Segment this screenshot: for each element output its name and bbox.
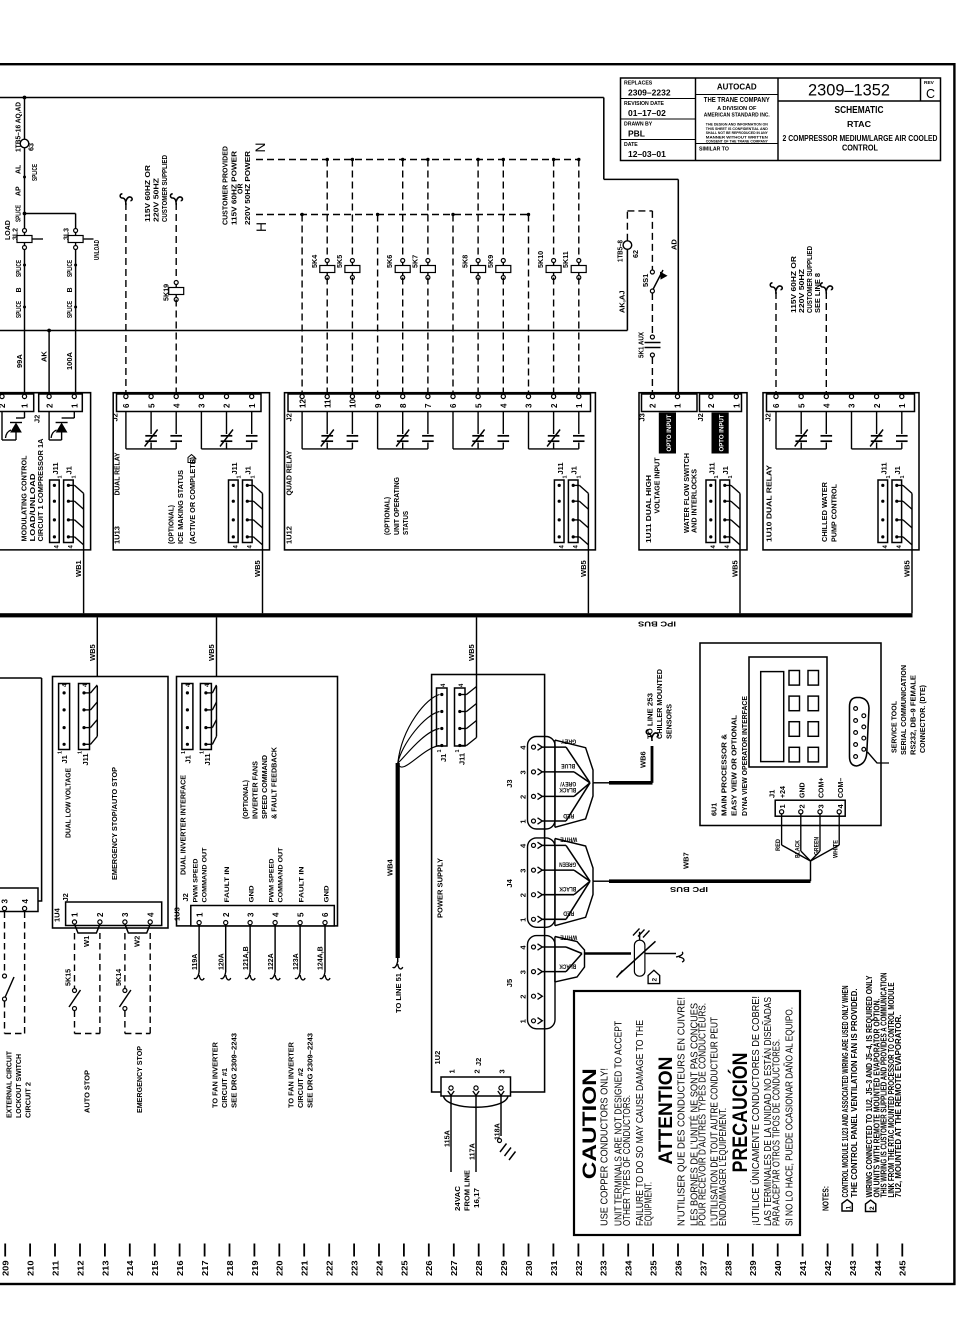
wire WB5 to 1U2 bbox=[476, 617, 478, 674]
svg-text:12: 12 bbox=[298, 399, 307, 408]
svg-text:220V 50HZ: 220V 50HZ bbox=[154, 177, 161, 222]
svg-text:STATUS: STATUS bbox=[403, 511, 410, 535]
wire customer feed dashed bbox=[120, 194, 126, 205]
svg-text:2: 2 bbox=[550, 403, 559, 408]
connector J1 of 1U2 bbox=[437, 688, 448, 746]
svg-text:118A: 118A bbox=[493, 1123, 502, 1140]
svg-text:W1: W1 bbox=[82, 936, 91, 947]
svg-text:LOAD: LOAD bbox=[5, 220, 12, 240]
svg-text:FROM LINE: FROM LINE bbox=[465, 1170, 472, 1211]
svg-text:1: 1 bbox=[195, 912, 204, 917]
svg-text:1: 1 bbox=[562, 475, 568, 478]
svg-text:WB5: WB5 bbox=[903, 560, 912, 577]
svg-text:228: 228 bbox=[474, 1260, 484, 1276]
svg-text:1: 1 bbox=[674, 403, 683, 408]
thyristor load circuit 2 bbox=[73, 412, 75, 419]
solenoid coil 3L3 bbox=[74, 229, 78, 233]
drawing sheet right border bbox=[953, 63, 955, 1285]
svg-text:1: 1 bbox=[519, 1019, 528, 1023]
node junction on rail bbox=[23, 96, 27, 100]
svg-text:POUR RECEVOIR D’AUTRES TYPES D: POUR RECEVOIR D’AUTRES TYPES DE CONDUCTE… bbox=[698, 1003, 709, 1226]
svg-text:J11: J11 bbox=[880, 462, 889, 474]
module 1U13 dual relay bbox=[113, 393, 269, 550]
svg-text:CUSTOMER SUPPLIED: CUSTOMER SUPPLIED bbox=[162, 155, 169, 222]
connector J11 bbox=[79, 684, 90, 750]
svg-text:1: 1 bbox=[181, 751, 187, 754]
svg-text:2: 2 bbox=[652, 978, 659, 982]
svg-text:3: 3 bbox=[848, 403, 857, 408]
svg-text:226: 226 bbox=[424, 1260, 434, 1276]
svg-text:AUTO STOP: AUTO STOP bbox=[85, 1070, 92, 1113]
svg-text:3L3: 3L3 bbox=[64, 228, 71, 240]
svg-text:2309–1352: 2309–1352 bbox=[808, 82, 890, 100]
pointer line to DB9 label bbox=[868, 752, 890, 763]
svg-text:CONNECTOR. (DTE): CONNECTOR. (DTE) bbox=[920, 685, 927, 753]
module (partial, left edge) bbox=[0, 677, 42, 679]
keypad display panel bbox=[749, 657, 827, 767]
svg-text:WHITE: WHITE bbox=[560, 836, 577, 843]
wire WB6 (thick) bbox=[593, 782, 609, 784]
svg-text:3: 3 bbox=[497, 1069, 506, 1073]
svg-text:CUSTOMER SUPPLIED: CUSTOMER SUPPLIED bbox=[807, 246, 814, 313]
cable bundle J3 to WB6 bbox=[555, 740, 593, 783]
contact 5K15 bbox=[73, 989, 77, 993]
svg-text:SERIAL COMMUNICATION: SERIAL COMMUNICATION bbox=[901, 665, 908, 755]
svg-text:3: 3 bbox=[519, 869, 528, 873]
svg-text:124A,B: 124A,B bbox=[318, 946, 325, 970]
svg-text:J11: J11 bbox=[203, 753, 212, 765]
svg-text:CIRCUIT #1: CIRCUIT #1 bbox=[222, 1068, 229, 1108]
svg-text:J1: J1 bbox=[721, 466, 730, 474]
svg-text:1: 1 bbox=[455, 749, 461, 752]
connector J11 of 1U2 bbox=[455, 688, 466, 746]
svg-text:5K11: 5K11 bbox=[561, 251, 570, 268]
svg-text:236: 236 bbox=[673, 1260, 683, 1276]
svg-text:PWM SPEED: PWM SPEED bbox=[269, 858, 276, 902]
wire WB1 bbox=[83, 550, 85, 613]
svg-text:THE CONTROL PANEL VENTILATION: THE CONTROL PANEL VENTILATION FAN IS PRO… bbox=[850, 989, 859, 1198]
svg-text:OPTO INPUT: OPTO INPUT bbox=[667, 414, 673, 451]
svg-text:115A: 115A bbox=[443, 1130, 452, 1147]
svg-text:LOAD/UNLOAD: LOAD/UNLOAD bbox=[30, 474, 37, 542]
wire H drop dashed bbox=[376, 213, 379, 216]
connector J2 pins (left) bbox=[0, 394, 34, 412]
svg-text:& FAULT FEEDBACK: & FAULT FEEDBACK bbox=[272, 747, 279, 819]
svg-text:BLACK: BLACK bbox=[559, 786, 576, 793]
wire harness hatch bbox=[897, 484, 903, 486]
svg-text:(OPTIONAL): (OPTIONAL) bbox=[169, 505, 176, 544]
svg-text:01–17–02: 01–17–02 bbox=[628, 108, 666, 118]
svg-text:115V 60HZ OR: 115V 60HZ OR bbox=[145, 165, 152, 222]
connector J1 bbox=[568, 480, 578, 543]
svg-text:1: 1 bbox=[733, 403, 742, 408]
svg-text:WB1: WB1 bbox=[74, 560, 83, 577]
svg-text:EMERGENCY STOP: EMERGENCY STOP bbox=[137, 1046, 144, 1113]
connector J11 bbox=[878, 480, 888, 543]
svg-text:J1: J1 bbox=[439, 754, 448, 762]
svg-text:SPEED COMMAND: SPEED COMMAND bbox=[262, 755, 269, 819]
svg-text:1U13: 1U13 bbox=[113, 526, 122, 544]
svg-text:RTAC: RTAC bbox=[847, 120, 871, 129]
svg-text:EMERGENCY STOP/AUTO STOP: EMERGENCY STOP/AUTO STOP bbox=[112, 767, 119, 880]
module 6U1 main processor bbox=[700, 643, 881, 826]
svg-text:3: 3 bbox=[525, 403, 534, 408]
svg-text:GND: GND bbox=[323, 885, 330, 902]
svg-text:IPC BUS: IPC BUS bbox=[638, 620, 676, 627]
svg-text:FAULT IN: FAULT IN bbox=[224, 866, 231, 902]
wire H drop dashed bbox=[527, 213, 530, 216]
svg-text:OPTO INPUT: OPTO INPUT bbox=[720, 414, 726, 451]
wire harness hatch bbox=[68, 484, 74, 486]
wire harness hatch bbox=[247, 484, 253, 486]
connector DB-9 service tool bbox=[850, 698, 870, 767]
relay coil 5K8 bbox=[476, 158, 479, 161]
svg-text:24VAC: 24VAC bbox=[455, 1186, 462, 1211]
svg-text:232: 232 bbox=[574, 1260, 584, 1276]
connector J2 of 1U12 bbox=[288, 394, 591, 412]
svg-text:3: 3 bbox=[198, 403, 207, 408]
connector J11 bbox=[200, 684, 211, 750]
svg-text:2: 2 bbox=[519, 995, 528, 999]
svg-text:245: 245 bbox=[898, 1260, 908, 1276]
svg-text:CIRCUIT 2: CIRCUIT 2 bbox=[26, 1082, 33, 1118]
svg-text:BLACK: BLACK bbox=[559, 885, 576, 892]
wire harness hatch bbox=[84, 692, 91, 694]
solenoid coil 3L2 bbox=[23, 229, 27, 233]
svg-text:GREEN: GREEN bbox=[559, 860, 576, 867]
svg-text:99A: 99A bbox=[15, 354, 24, 368]
svg-text:2: 2 bbox=[472, 1069, 481, 1073]
svg-text:6: 6 bbox=[122, 403, 131, 408]
wire WB5 to 1U3 bbox=[216, 617, 218, 676]
svg-text:WB7: WB7 bbox=[682, 852, 691, 869]
svg-text:PRECAUCIÓN: PRECAUCIÓN bbox=[727, 1053, 752, 1173]
svg-text:211: 211 bbox=[50, 1260, 60, 1276]
svg-text:231: 231 bbox=[549, 1260, 559, 1276]
connector J3 of 1U11 bbox=[642, 394, 698, 412]
svg-text:J3: J3 bbox=[638, 413, 647, 421]
svg-text:215: 215 bbox=[150, 1260, 160, 1276]
wire dashed to 5K15 bbox=[74, 933, 76, 989]
svg-text:5K4: 5K4 bbox=[310, 255, 319, 268]
svg-text:CAUTION: CAUTION bbox=[580, 1068, 601, 1179]
svg-text:1: 1 bbox=[728, 475, 734, 478]
svg-text:5K6: 5K6 bbox=[385, 255, 394, 268]
wire rail AQ,AD bbox=[0, 97, 604, 99]
svg-text:TO FAN INVERTER: TO FAN INVERTER bbox=[213, 1042, 220, 1108]
bus WB7 / IPC (thick) bbox=[593, 880, 609, 882]
svg-text:212: 212 bbox=[75, 1260, 85, 1276]
svg-text:238: 238 bbox=[723, 1260, 733, 1276]
svg-text:1: 1 bbox=[519, 918, 528, 922]
svg-text:CHILLED WATER: CHILLED WATER bbox=[822, 482, 829, 542]
svg-text:QUAD RELAY: QUAD RELAY bbox=[285, 450, 294, 495]
module 1U4 dual low voltage bbox=[53, 677, 169, 929]
wire relay contact group bbox=[775, 412, 777, 449]
contact 5K1 AUX bbox=[650, 335, 654, 339]
svg-text:REVISION DATE: REVISION DATE bbox=[624, 101, 665, 107]
svg-text:216: 216 bbox=[175, 1260, 185, 1276]
jumper W2 bbox=[125, 924, 150, 933]
svg-text:1: 1 bbox=[898, 403, 907, 408]
wire relay contact group bbox=[377, 412, 379, 449]
svg-text:GND: GND bbox=[248, 885, 255, 902]
svg-text:IPC BUS: IPC BUS bbox=[670, 885, 708, 892]
wire 100A lower bbox=[75, 249, 77, 395]
svg-text:N’UTILISER QUE DES CONDUCTEURS: N’UTILISER QUE DES CONDUCTEURS EN CUIVRE… bbox=[676, 997, 687, 1226]
svg-text:1: 1 bbox=[21, 403, 30, 408]
svg-text:J1: J1 bbox=[768, 790, 777, 798]
svg-text:5K1 AUX: 5K1 AUX bbox=[637, 332, 646, 358]
svg-text:5: 5 bbox=[296, 912, 305, 917]
wire H dashed bbox=[256, 214, 528, 216]
svg-text:10: 10 bbox=[349, 399, 358, 408]
svg-text:1: 1 bbox=[900, 475, 906, 478]
svg-text:J1: J1 bbox=[569, 466, 578, 474]
wire relay contact group bbox=[452, 412, 454, 449]
svg-text:1: 1 bbox=[71, 403, 80, 408]
svg-text:CIRCUIT 1 COMPRESSOR 1A: CIRCUIT 1 COMPRESSOR 1A bbox=[38, 439, 45, 542]
note flag 1 in 1U13 bbox=[188, 455, 195, 463]
svg-text:+24: +24 bbox=[780, 786, 787, 798]
wire relay contact group bbox=[851, 412, 853, 449]
module 1U12 quad relay bbox=[285, 393, 596, 550]
svg-text:1: 1 bbox=[778, 804, 787, 808]
svg-text:J4: J4 bbox=[505, 878, 514, 887]
connector J11 bbox=[50, 480, 60, 543]
svg-text:LOCKOUT SWITCH: LOCKOUT SWITCH bbox=[16, 1054, 23, 1118]
svg-text:233: 233 bbox=[599, 1260, 609, 1276]
svg-text:SERVICE TOOL: SERVICE TOOL bbox=[892, 700, 899, 753]
svg-text:2: 2 bbox=[649, 403, 658, 408]
terminal 1TB5-16 63 bbox=[20, 139, 29, 148]
svg-text:TO FAN INVERTER: TO FAN INVERTER bbox=[289, 1042, 296, 1108]
svg-text:9: 9 bbox=[374, 403, 383, 408]
wire harness hatch bbox=[573, 484, 579, 486]
svg-text:8: 8 bbox=[399, 403, 408, 408]
svg-text:1: 1 bbox=[575, 403, 584, 408]
svg-text:SPLICE: SPLICE bbox=[16, 260, 23, 277]
wire customer feed dashed bbox=[821, 283, 827, 294]
svg-text:POWER SUPPLY: POWER SUPPLY bbox=[436, 858, 445, 918]
wire relay contact group bbox=[301, 412, 303, 449]
chassis ground symbol bbox=[500, 1144, 507, 1153]
svg-text:16,17: 16,17 bbox=[474, 1188, 481, 1208]
svg-text:243: 243 bbox=[848, 1260, 858, 1276]
svg-text:2 COMPRESSOR MEDIUM/LARGE AIR: 2 COMPRESSOR MEDIUM/LARGE AIR COOLED bbox=[783, 134, 938, 143]
note flag 1 bbox=[842, 1200, 852, 1211]
svg-text:1U12: 1U12 bbox=[285, 526, 294, 544]
module 1U3 dual inverter interface bbox=[177, 677, 338, 926]
svg-text:AK: AK bbox=[40, 351, 49, 362]
svg-text:(ACTIVE OR COMPLETE): (ACTIVE OR COMPLETE) bbox=[190, 457, 197, 544]
svg-text:USE COPPER CONDUCTORS ONLY!: USE COPPER CONDUCTORS ONLY! bbox=[600, 1068, 611, 1226]
note flag 2 bbox=[648, 970, 660, 983]
svg-text:2: 2 bbox=[0, 403, 7, 408]
svg-text:AD: AD bbox=[670, 239, 679, 250]
svg-text:223: 223 bbox=[350, 1260, 360, 1276]
svg-text:J1: J1 bbox=[893, 466, 902, 474]
splice dots bbox=[74, 264, 77, 267]
svg-text:RS232, DB–9 FEMALE: RS232, DB–9 FEMALE bbox=[911, 675, 918, 755]
svg-text:J2: J2 bbox=[696, 413, 705, 421]
wire AK bbox=[48, 331, 50, 395]
svg-text:1: 1 bbox=[845, 1206, 852, 1210]
connector J4 of 1U2 bbox=[528, 838, 556, 927]
svg-text:1: 1 bbox=[714, 475, 720, 478]
svg-text:5K7: 5K7 bbox=[410, 255, 419, 268]
jumper W1 bbox=[75, 924, 100, 933]
wire dashed jumper over 1TB5-8 bbox=[626, 211, 628, 241]
svg-text:224: 224 bbox=[374, 1260, 384, 1276]
svg-text:2: 2 bbox=[45, 403, 54, 408]
svg-text:217: 217 bbox=[200, 1260, 210, 1276]
svg-text:J1: J1 bbox=[60, 755, 69, 763]
wire WB5 bbox=[911, 550, 913, 613]
svg-text:MAIN PROCESSOR &: MAIN PROCESSOR & bbox=[722, 734, 729, 816]
wire relay contact group bbox=[125, 412, 127, 449]
svg-text:218: 218 bbox=[225, 1260, 235, 1276]
svg-text:121A,B: 121A,B bbox=[243, 946, 250, 970]
svg-text:119A: 119A bbox=[192, 954, 199, 970]
svg-text:5: 5 bbox=[797, 403, 806, 408]
svg-text:COMMAND OUT: COMMAND OUT bbox=[278, 847, 285, 903]
svg-text:W2: W2 bbox=[133, 936, 142, 947]
connector J1 bbox=[59, 684, 70, 750]
svg-text:1: 1 bbox=[237, 475, 243, 478]
svg-text:WB5: WB5 bbox=[253, 560, 262, 577]
svg-text:227: 227 bbox=[449, 1260, 459, 1276]
svg-text:4: 4 bbox=[172, 403, 181, 408]
svg-text:123A: 123A bbox=[293, 953, 300, 970]
wire relay contact group bbox=[200, 412, 202, 449]
caution attention precaution box bbox=[574, 991, 800, 1235]
svg-text:H: H bbox=[253, 222, 269, 232]
svg-text:3: 3 bbox=[121, 912, 130, 917]
note flag 2 bbox=[866, 1200, 876, 1211]
connector J11 bbox=[229, 480, 239, 543]
svg-text:N: N bbox=[252, 143, 268, 153]
opto input block J2 bbox=[712, 413, 729, 454]
contact 5K14 bbox=[123, 989, 127, 993]
svg-text:5K10: 5K10 bbox=[536, 251, 545, 268]
svg-text:7U2, MOUNTED AT THE REMOTE EVA: 7U2, MOUNTED AT THE REMOTE EVAPORATOR. bbox=[894, 1015, 903, 1198]
svg-text:CONTROL: CONTROL bbox=[842, 144, 878, 153]
svg-text:2: 2 bbox=[873, 403, 882, 408]
svg-text:4: 4 bbox=[823, 403, 832, 408]
module 1U2 power supply bbox=[432, 675, 545, 1093]
svg-text:SPLICE: SPLICE bbox=[16, 205, 23, 222]
connector J2 of 1U13 bbox=[117, 394, 262, 412]
svg-text:CONTROL MODULE 1U23 AND ASSOCI: CONTROL MODULE 1U23 AND ASSOCIATED WIRIN… bbox=[841, 985, 850, 1197]
svg-text:5K19: 5K19 bbox=[162, 284, 171, 301]
svg-text:J11: J11 bbox=[708, 462, 717, 474]
title block bbox=[621, 78, 941, 161]
svg-text:J3: J3 bbox=[505, 779, 514, 787]
wire dashed auto stop loop bbox=[75, 1033, 100, 1035]
svg-text:J11: J11 bbox=[51, 462, 60, 474]
svg-text:B: B bbox=[67, 287, 74, 292]
svg-text:6U1: 6U1 bbox=[709, 803, 718, 816]
svg-text:ATTENTION: ATTENTION bbox=[656, 1057, 677, 1165]
svg-text:115V 60HZ OR: 115V 60HZ OR bbox=[791, 256, 798, 313]
wire H drop dashed bbox=[451, 213, 454, 216]
svg-text:117A: 117A bbox=[468, 1143, 477, 1160]
schematic line number scale 209-245 bbox=[4, 1244, 6, 1257]
svg-text:5: 5 bbox=[147, 403, 156, 408]
svg-text:3: 3 bbox=[519, 770, 528, 774]
svg-text:FAULT IN: FAULT IN bbox=[298, 866, 305, 902]
svg-text:EQUIPMENT.: EQUIPMENT. bbox=[643, 1182, 654, 1226]
svg-text:J2: J2 bbox=[285, 413, 294, 421]
connector J5 of 1U2 bbox=[528, 936, 556, 1029]
connector J1 of 6U1 bbox=[775, 800, 845, 816]
svg-text:OR: OR bbox=[238, 184, 245, 195]
wire H drop dashed bbox=[300, 213, 303, 216]
svg-text:J11: J11 bbox=[556, 462, 565, 474]
svg-text:WB5: WB5 bbox=[467, 644, 476, 661]
svg-text:PWM SPEED: PWM SPEED bbox=[193, 858, 200, 902]
wire WB7 riser to 6U1 bbox=[810, 861, 812, 881]
connector J2 of 1U4 bbox=[66, 902, 162, 926]
svg-text:2: 2 bbox=[797, 804, 806, 808]
wire dashed to 5K14 bbox=[124, 933, 126, 989]
svg-text:SPLICE: SPLICE bbox=[32, 164, 39, 181]
svg-text:CUSTOMER PROVIDED: CUSTOMER PROVIDED bbox=[223, 146, 230, 225]
svg-text:11: 11 bbox=[323, 399, 332, 408]
wire WB5 to 1U4 bbox=[96, 617, 98, 676]
antenna symbol remote evaporator bbox=[634, 940, 645, 976]
wire dashed return bbox=[24, 912, 26, 1034]
relay coil 5K6 bbox=[401, 158, 404, 161]
svg-text:WATER FLOW SWITCH: WATER FLOW SWITCH bbox=[684, 453, 691, 533]
svg-text:2: 2 bbox=[519, 893, 528, 897]
svg-text:J1: J1 bbox=[183, 755, 192, 763]
wire branch bbox=[25, 213, 76, 215]
svg-text:1: 1 bbox=[251, 475, 257, 478]
svg-text:AL: AL bbox=[16, 164, 23, 174]
svg-text:COM–: COM– bbox=[838, 778, 845, 798]
svg-text:J2: J2 bbox=[764, 413, 773, 421]
wire customer feed dashed with 5K19 bbox=[170, 194, 176, 205]
svg-text:WB5: WB5 bbox=[88, 644, 97, 661]
splice dot bbox=[23, 176, 26, 179]
wires 119A-124A to fan inverters bbox=[198, 925, 200, 972]
svg-text:244: 244 bbox=[873, 1260, 883, 1276]
svg-text:1: 1 bbox=[437, 749, 443, 752]
svg-text:EXTERNAL CIRCUIT: EXTERNAL CIRCUIT bbox=[7, 1050, 14, 1118]
svg-text:1: 1 bbox=[58, 751, 64, 754]
drawing sheet top border bbox=[0, 63, 956, 65]
svg-text:1: 1 bbox=[248, 403, 257, 408]
svg-text:SI NO LO HACE, PUEDE OCASIONAR: SI NO LO HACE, PUEDE OCASIONAR DAÑO AL E… bbox=[783, 1007, 796, 1226]
svg-text:62: 62 bbox=[631, 250, 640, 258]
svg-text:GREY: GREY bbox=[560, 737, 576, 744]
svg-text:PUMP CONTROL: PUMP CONTROL bbox=[832, 483, 839, 542]
svg-text:1: 1 bbox=[519, 819, 528, 823]
svg-text:220: 220 bbox=[275, 1260, 285, 1276]
svg-text:ENDOMMAGER L’ÉQUIPEMENT.: ENDOMMAGER L’ÉQUIPEMENT. bbox=[716, 1108, 729, 1226]
svg-text:(OPTIONAL): (OPTIONAL) bbox=[385, 497, 392, 535]
svg-text:COMMAND OUT: COMMAND OUT bbox=[202, 847, 209, 903]
svg-text:BLACK: BLACK bbox=[794, 840, 801, 858]
svg-text:RED: RED bbox=[563, 812, 574, 819]
svg-text:237: 237 bbox=[698, 1260, 708, 1276]
svg-text:UNIT OPERATING: UNIT OPERATING bbox=[394, 476, 401, 535]
svg-text:12–03–01: 12–03–01 bbox=[628, 149, 666, 159]
svg-text:120A: 120A bbox=[218, 953, 225, 970]
svg-text:5K9: 5K9 bbox=[486, 255, 495, 268]
